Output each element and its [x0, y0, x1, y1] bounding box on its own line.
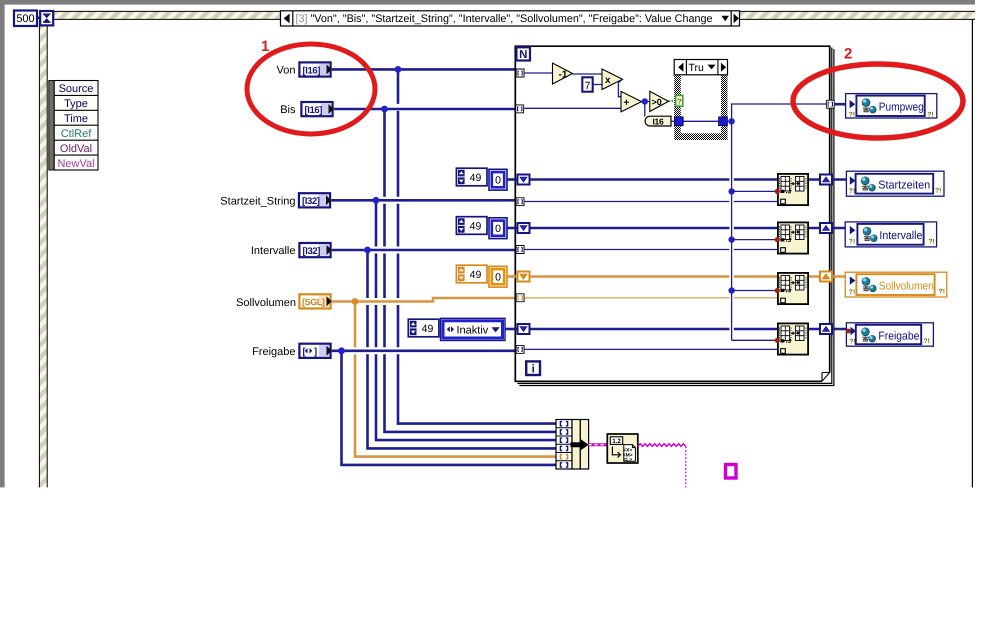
terminal Von — [277, 62, 332, 76]
wire shift register row2 to RAS2 (gap at vertical) — [531, 227, 778, 230]
shift register left row2 — [518, 223, 530, 233]
window left gray bar — [0, 0, 5, 487]
tunnel Freigabe element — [516, 345, 524, 353]
array constant row3 index display (orange) — [456, 265, 487, 283]
wire index to RAS2 — [732, 239, 778, 241]
red annotation ellipse 1 — [247, 44, 375, 134]
wire Sollvolumen vertical drop to bundle (orange) — [355, 302, 556, 458]
svg-text:[I16]: [I16] — [305, 105, 323, 116]
event selector label — [281, 11, 740, 26]
shift register left row1 — [518, 175, 530, 185]
array constant row4 index display — [408, 319, 439, 337]
tunnel Sollvolumen element (orange) — [516, 294, 524, 302]
svg-text:2: 2 — [844, 46, 852, 63]
svg-text:49: 49 — [422, 323, 434, 335]
wire add output with branch — [642, 102, 650, 117]
svg-text:?!: ?! — [849, 188, 855, 195]
svg-text:OldVal: OldVal — [60, 143, 92, 155]
shift register left row4 — [518, 324, 530, 334]
wire element row4 to RAS4 — [525, 348, 778, 350]
tunnel Startzeit_String element — [516, 198, 524, 206]
wire case to junction — [727, 120, 731, 122]
wire element row1 to RAS1 (gap at vertical) — [525, 201, 778, 203]
junction dot index row2 — [728, 236, 734, 242]
timeout hourglass icon — [40, 11, 53, 25]
terminal Freigabe — [252, 344, 332, 358]
svg-text:]: ] — [314, 346, 317, 357]
svg-text:[I32]: [I32] — [303, 246, 321, 257]
svg-text:0: 0 — [495, 272, 501, 284]
Replace Array Subset node 3 — [778, 273, 808, 304]
for loop count terminal N — [516, 47, 530, 61]
coercion dot RAS3 index — [775, 288, 780, 293]
svg-text:1: 1 — [261, 38, 269, 55]
event data node — [49, 81, 98, 171]
wire element row3 to RAS3 (orange thin, gap at vertical) — [525, 297, 778, 299]
shift register right row3 (orange) — [820, 272, 832, 282]
shared variable node Startzeiten — [846, 171, 944, 196]
shift register right row2 — [820, 223, 832, 233]
case structure Tru — [674, 60, 727, 141]
case tunnel right (blue square) — [719, 117, 728, 126]
multiply triangle x — [602, 69, 623, 90]
array constant row2 element 0 — [489, 218, 507, 239]
svg-text:49: 49 — [470, 221, 482, 233]
svg-text:?!: ?! — [849, 111, 855, 118]
svg-text:i: i — [532, 364, 535, 376]
svg-text:>0: >0 — [652, 97, 662, 107]
bundle node — [556, 420, 589, 470]
shift register left row3 (orange) — [518, 272, 530, 282]
wire -1 to multiply — [573, 73, 603, 75]
wire row3 constant to shift register (orange) — [507, 275, 517, 278]
svg-text:Intervalle: Intervalle — [879, 230, 922, 242]
svg-text:Bis: Bis — [280, 104, 296, 116]
wire index to RAS4 — [732, 339, 778, 341]
wire row4 enum to shift register — [505, 328, 517, 331]
wire Intervalle vertical drop to bundle — [368, 250, 557, 450]
svg-text:?!: ?! — [849, 239, 855, 246]
svg-text:N: N — [519, 49, 527, 61]
junction dot index row3 — [728, 287, 734, 293]
wire I16 to case tunnel — [671, 120, 676, 122]
wire Von terminal to loop tunnel — [332, 68, 516, 71]
coercion dot Freigabe input — [846, 329, 851, 334]
greater than zero triangle — [650, 91, 669, 111]
svg-text:Sollvolumen: Sollvolumen — [236, 297, 296, 309]
svg-text:[SGL]: [SGL] — [302, 297, 325, 307]
wire index to RAS3 — [732, 290, 778, 292]
svg-text:Intervalle: Intervalle — [251, 245, 296, 257]
index distribution vertical wire — [732, 104, 826, 340]
wire RAS1 to shift register right — [809, 178, 847, 181]
junction dot index row1 — [728, 188, 734, 194]
junction dot Intervalle — [364, 247, 371, 254]
wire index to RAS1 — [732, 190, 778, 192]
tunnel Pumpweg output — [826, 100, 834, 108]
svg-text:Sollvolumen: Sollvolumen — [879, 280, 934, 292]
svg-text:Type: Type — [64, 98, 88, 110]
wire Von thin inside loop — [525, 72, 553, 74]
svg-text:?!: ?! — [935, 188, 941, 195]
tunnel Bis (auto-index) — [516, 105, 524, 113]
wire Intervalle terminal to loop tunnel — [332, 249, 516, 252]
case tunnel left (blue square) — [674, 117, 683, 126]
svg-text:?!: ?! — [923, 338, 929, 345]
svg-text:?!: ?! — [927, 111, 933, 118]
wire shift register row3 to RAS3 (orange, gap at vertical) — [531, 275, 778, 278]
Replace Array Subset node 1 — [778, 174, 808, 205]
wire RAS2 to shift register right — [809, 227, 846, 230]
array constant row1 index display — [456, 168, 487, 186]
Flatten To XML node — [607, 434, 638, 463]
shared variable node Freigabe — [846, 323, 933, 346]
wire through case frame — [683, 120, 719, 122]
svg-text:7: 7 — [585, 80, 591, 92]
svg-text:500: 500 — [16, 13, 34, 25]
wire RAS4 to shift register right — [809, 328, 847, 331]
tunnel Intervalle element — [516, 246, 524, 254]
terminal Bis — [280, 102, 334, 116]
svg-text:Startzeit_String: Startzeit_String — [220, 195, 295, 207]
svg-text:?!: ?! — [849, 338, 855, 345]
for loop frame (main border with folded bottom-right corner) — [515, 46, 834, 385]
junction dot Bis — [381, 106, 388, 113]
event structure left border (hatched) — [39, 19, 47, 487]
coercion dot RAS1 index — [775, 189, 780, 194]
svg-text:Startzeiten: Startzeiten — [878, 180, 930, 192]
array constant row1 element 0 — [489, 169, 507, 190]
svg-text:NewVal: NewVal — [57, 158, 94, 170]
wire 7 to multiply — [593, 84, 602, 86]
svg-text:Pumpweg: Pumpweg — [879, 101, 924, 113]
wire shift register row4 to RAS4 (gap at vertical) — [531, 328, 778, 331]
svg-text:<L>: <L> — [623, 457, 632, 463]
wire Bis terminal to loop tunnel — [334, 108, 516, 111]
junction dot add output — [642, 98, 648, 104]
svg-text:Freigabe: Freigabe — [252, 346, 295, 358]
svg-text:+: + — [624, 98, 630, 109]
svg-text:I16: I16 — [653, 116, 664, 126]
junction dot case output — [728, 118, 734, 124]
event structure right border line — [971, 19, 973, 487]
svg-text:?!: ?! — [939, 289, 945, 296]
terminal Sollvolumen — [236, 294, 332, 309]
svg-text:Tru: Tru — [689, 62, 705, 74]
terminal Intervalle — [251, 243, 332, 257]
wire shift register row1 to RAS1 (gap at vertical) — [531, 178, 778, 181]
array constant row2 index display — [456, 217, 487, 235]
svg-text:Source: Source — [59, 83, 94, 95]
window top gray bar — [0, 0, 975, 5]
wire Bis thin inside loop to add — [524, 107, 621, 109]
case selector tunnel (green ?) — [676, 95, 683, 106]
wire Startzeit_String vertical drop to bundle — [376, 200, 556, 441]
wire multiply to add — [618, 79, 622, 97]
wire Bis vertical drop to bundle — [385, 109, 557, 433]
junction dot Sollvolumen (orange) — [352, 298, 359, 305]
svg-text:?: ? — [677, 97, 682, 107]
array constant row3 element 0 (orange) — [489, 266, 507, 287]
svg-text:[I32]: [I32] — [302, 196, 320, 207]
wire row1 constant to shift register — [507, 178, 517, 181]
svg-text:Von: Von — [277, 65, 296, 77]
svg-text:Inaktiv: Inaktiv — [457, 324, 489, 336]
timeout value box 500 — [14, 11, 40, 27]
svg-text:1.2: 1.2 — [612, 438, 621, 445]
red annotation ellipse 2 — [793, 64, 963, 138]
shared variable node Pumpweg — [846, 94, 937, 119]
wire XML node output (magenta zigzag string wire) — [638, 444, 686, 447]
decrement triangle -1 — [553, 63, 573, 84]
wire tunnel to Pumpweg node — [835, 103, 847, 106]
wire bundle to XML node (pink cluster wire) — [589, 443, 607, 446]
shared variable node Sollvolumen (orange) — [845, 272, 947, 297]
junction dot Startzeit_String — [373, 197, 380, 204]
svg-text:[3] "Von", "Bis", "Startzeit_S: [3] "Von", "Bis", "Startzeit_String", "I… — [296, 13, 713, 25]
svg-text:?!: ?! — [928, 238, 934, 245]
for loop iteration terminal i — [526, 361, 540, 375]
svg-text:49: 49 — [470, 269, 482, 281]
svg-text:?!: ?! — [849, 289, 855, 296]
svg-text:[I16]: [I16] — [303, 65, 321, 76]
wire magenta vertical dotted — [685, 447, 687, 488]
coercion dot RAS4 index — [775, 338, 780, 343]
shift register right row4 — [820, 324, 832, 334]
junction dot Freigabe — [338, 347, 345, 354]
svg-text:x: x — [605, 75, 611, 86]
coercion dot RAS2 index — [775, 237, 780, 242]
shift register right row1 — [820, 175, 832, 185]
magenta square (unwired string tunnel) — [726, 465, 737, 479]
To Word Integer conversion I16 — [645, 116, 671, 126]
wire RAS3 to shift register right (orange) — [809, 275, 846, 278]
wire boolean dotted green to case selector — [669, 100, 676, 102]
junction dot Von — [395, 66, 402, 73]
svg-text:49: 49 — [470, 172, 482, 184]
constant 7 — [582, 77, 592, 92]
shared variable node Intervalle — [845, 222, 936, 247]
enum constant Inaktiv — [441, 318, 506, 340]
wire Freigabe terminal to loop tunnel — [332, 349, 516, 352]
wire Von vertical drop to bundle — [398, 69, 556, 425]
wire row2 constant to shift register — [507, 227, 517, 230]
svg-text:-1: -1 — [559, 69, 568, 80]
Replace Array Subset node 2 — [778, 222, 808, 253]
terminal Startzeit_String — [220, 193, 331, 207]
svg-text:Time: Time — [64, 113, 88, 125]
svg-text:0: 0 — [495, 175, 501, 187]
wire element row2 to RAS2 (gap at vertical) — [525, 249, 778, 251]
event structure top border (hatched) — [39, 11, 975, 19]
Replace Array Subset node 4 — [778, 323, 808, 354]
svg-text:0: 0 — [495, 223, 501, 235]
svg-text:CtlRef: CtlRef — [61, 128, 93, 140]
wire Freigabe vertical drop to bundle — [342, 351, 557, 466]
tunnel Von (auto-index) — [516, 69, 524, 77]
wire Sollvolumen terminal to loop tunnel (orange, jogs up) — [332, 298, 516, 302]
svg-text:Freigabe: Freigabe — [878, 330, 919, 342]
wire Startzeit_String terminal to loop tunnel — [331, 199, 516, 202]
add triangle + — [621, 91, 642, 112]
